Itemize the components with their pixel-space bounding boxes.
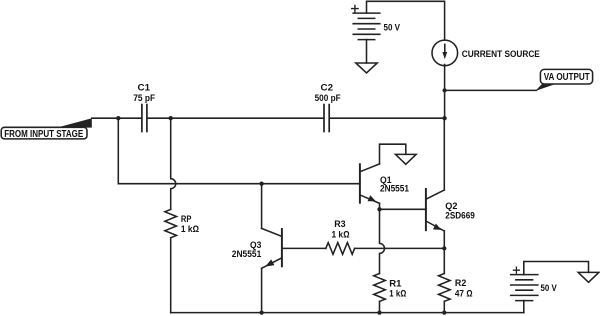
wire: Q1 emitter node to Q2 base bbox=[380, 208, 426, 210]
svg-text:2N5551: 2N5551 bbox=[232, 249, 262, 259]
wire: current source output down to main node bbox=[444, 65, 446, 119]
wire: Q3 collector up to Q1 base wire bbox=[261, 184, 263, 229]
wire: V2 positive up and right to ground bbox=[524, 262, 589, 275]
node: Q2 emitter / R2 / R3 junction bbox=[442, 246, 446, 250]
svg-text:47 Ω: 47 Ω bbox=[455, 288, 473, 298]
battery V2 (bottom 50 V) bbox=[511, 267, 538, 300]
node: R1 / rail junction bbox=[377, 310, 381, 314]
current source I1 bbox=[432, 40, 458, 66]
svg-text:75 pF: 75 pF bbox=[133, 93, 155, 103]
wire: VA output tap bbox=[445, 89, 537, 91]
transistor Q3 2N5551 bbox=[262, 228, 282, 268]
svg-text:2SD669: 2SD669 bbox=[445, 211, 475, 221]
wire: bottom ground rail bbox=[171, 312, 524, 314]
transistor Q2 2SD669 bbox=[426, 189, 444, 231]
ground (Q1 collector) bbox=[396, 154, 417, 164]
svg-text:50 V: 50 V bbox=[384, 22, 401, 32]
svg-text:R2: R2 bbox=[455, 278, 466, 288]
node: Q3 emitter / rail junction bbox=[259, 310, 263, 314]
svg-text:Q2: Q2 bbox=[445, 201, 457, 211]
wire: RP to ground rail bbox=[170, 238, 172, 313]
wire: from input stage to C1 bbox=[92, 117, 141, 119]
node: C1 right / RP branch junction bbox=[169, 116, 173, 120]
wire: branch from C1-left down and across to Q1 base bbox=[118, 118, 360, 184]
wire: R1 to rail bbox=[379, 301, 381, 312]
svg-text:RP: RP bbox=[181, 214, 192, 224]
svg-text:500 pF: 500 pF bbox=[315, 93, 341, 103]
node: C1 left / feedback branch junction bbox=[116, 116, 120, 120]
svg-text:C1: C1 bbox=[138, 82, 151, 92]
wire: battery V1 negative down to ground bbox=[366, 40, 368, 63]
svg-text:CURRENT SOURCE: CURRENT SOURCE bbox=[462, 48, 540, 59]
ground (V2 positive) bbox=[578, 272, 599, 282]
wire: R3 to Q2 emitter node bbox=[355, 247, 445, 249]
wire: C1 to C2 bbox=[148, 117, 324, 119]
wire: C2 to current source node bbox=[330, 117, 445, 119]
node: Q3 collector junction on Q1 base wire bbox=[259, 182, 263, 186]
wire: R2 to rail bbox=[443, 301, 445, 312]
capacitor C2 bbox=[324, 105, 329, 132]
wire: RP branch down with hop over Q1 base wire bbox=[171, 118, 176, 209]
svg-text:1 kΩ: 1 kΩ bbox=[389, 288, 406, 298]
svg-text:1 kΩ: 1 kΩ bbox=[181, 224, 199, 234]
capacitor C1 bbox=[142, 105, 147, 132]
resistor RP bbox=[165, 209, 177, 237]
svg-text:R3: R3 bbox=[334, 219, 345, 229]
node: Q1 emitter / Q2 base junction bbox=[377, 207, 381, 211]
svg-text:FROM INPUT STAGE: FROM INPUT STAGE bbox=[4, 129, 83, 140]
wire: Q1 emitter down with hop over R3 wire to R1 bbox=[380, 203, 385, 273]
svg-text:R1: R1 bbox=[389, 279, 401, 289]
transistor Q1 2N5551 bbox=[360, 164, 380, 203]
wire: Q1 collector up and over to ground bbox=[380, 144, 406, 164]
wire: battery V1 positive up and across to current source bbox=[367, 1, 445, 40]
resistor R2 bbox=[439, 274, 451, 302]
node: VA output junction bbox=[442, 88, 446, 92]
wire: Q3 emitter down to rail bbox=[261, 268, 263, 312]
wire: Q3 base to R3 bbox=[282, 247, 326, 249]
battery V1 (top 50 V supply) bbox=[352, 5, 380, 39]
wire: node down to R2 bbox=[443, 248, 445, 273]
ground (below battery V1) bbox=[356, 63, 377, 73]
svg-text:1 kΩ: 1 kΩ bbox=[331, 229, 349, 239]
wire: Q2 collector up to current source node bbox=[443, 118, 445, 190]
svg-text:VA OUTPUT: VA OUTPUT bbox=[544, 72, 590, 83]
svg-text:C2: C2 bbox=[321, 83, 334, 93]
resistor R1 bbox=[374, 274, 386, 302]
wire: Q2 emitter down to node bbox=[443, 231, 445, 248]
svg-text:50 V: 50 V bbox=[541, 283, 558, 293]
node: main wire / current source junction bbox=[442, 116, 446, 120]
node: R2 / rail junction bbox=[442, 310, 446, 314]
wire: V2 negative down to rail bbox=[523, 301, 525, 313]
flag FROM INPUT STAGE bbox=[1, 118, 92, 140]
flag VA OUTPUT bbox=[535, 69, 592, 91]
resistor R3 bbox=[326, 243, 355, 255]
svg-text:2N5551: 2N5551 bbox=[380, 184, 409, 194]
